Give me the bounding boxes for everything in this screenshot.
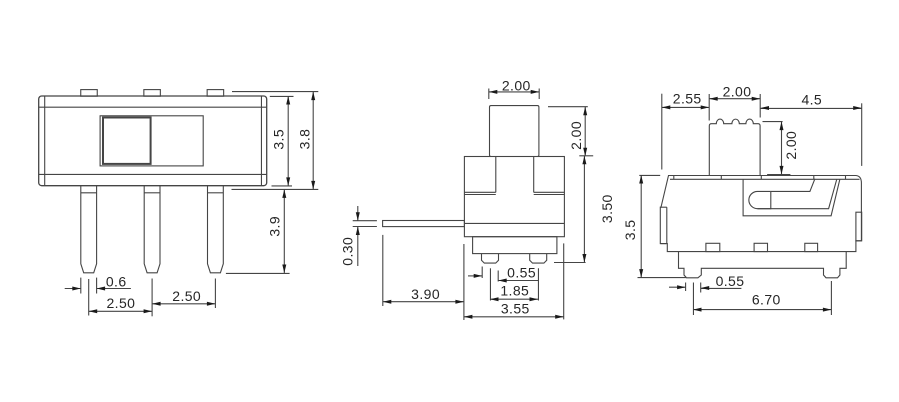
- dim 2.00 top line: [489, 91, 539, 93]
- dim 3.50 line: [583, 156, 585, 263]
- middle view body: [464, 157, 564, 237]
- svg-text:1.85: 1.85: [500, 283, 529, 299]
- svg-text:3.50: 3.50: [599, 194, 615, 223]
- right view slot bottom edge: [758, 180, 837, 209]
- dim 3.8 extension lines: [232, 91, 318, 93]
- dim 0.30 extension lines: [353, 220, 377, 222]
- left view slider window: [100, 116, 203, 166]
- svg-text:3.8: 3.8: [296, 129, 312, 150]
- dim 2.00 top extension ticks: [488, 89, 490, 100]
- svg-text:0.6: 0.6: [106, 274, 127, 290]
- dim 3.55 extension line right: [563, 243, 565, 319]
- left view: switch body (front): [39, 96, 267, 186]
- dim 2.00 rv vertical line: [781, 122, 783, 175]
- middle view: actuator stem: [490, 106, 539, 157]
- dim 3.5 extension lines: [270, 95, 294, 97]
- svg-text:2.55: 2.55: [673, 90, 702, 106]
- dim 2.55 line: [662, 106, 709, 108]
- svg-text:3.55: 3.55: [501, 301, 530, 317]
- dim 3.8 line: [312, 92, 314, 190]
- dim 6.70 extension lines: [692, 283, 694, 316]
- dim 1.85 line: [490, 298, 538, 300]
- dim 3.90 line: [383, 301, 464, 303]
- dim 3.9 extension line: [226, 272, 290, 274]
- dim 2.55 extension line: [661, 94, 663, 170]
- dim 2.00 rv top line: [709, 98, 760, 100]
- dim 3.5 line: [287, 96, 289, 186]
- svg-text:3.9: 3.9: [267, 216, 283, 237]
- right view right tab: [856, 212, 862, 241]
- dim 2.00 right extension line: [548, 106, 588, 108]
- dim 2.50 right line: [152, 303, 215, 305]
- middle view base: [473, 237, 557, 254]
- dim 4.5 line: [761, 107, 862, 109]
- dim 0.55 middle extension lines: [481, 267, 483, 279]
- right view knob pill: [749, 191, 771, 208]
- dim 6.70 line: [693, 309, 831, 311]
- right view bottom terminal rects: [706, 243, 720, 251]
- dim 3.55 line: [464, 316, 564, 318]
- dim 0.55 rv arrows: [669, 286, 686, 288]
- middle view foot 1: [482, 254, 499, 264]
- dim 4.5 extension line: [861, 103, 863, 166]
- dim 0.6 extension lines: [80, 278, 82, 294]
- svg-text:0.55: 0.55: [507, 265, 536, 281]
- right view inner top line: [670, 178, 860, 180]
- right view actuator with serrations: [709, 119, 760, 175]
- svg-text:4.5: 4.5: [801, 92, 822, 108]
- svg-text:2.00: 2.00: [783, 131, 799, 160]
- right view recess outline: [743, 179, 840, 216]
- svg-text:3.5: 3.5: [622, 220, 638, 241]
- dim 3.5 rv line: [640, 175, 642, 278]
- middle view bent pin (side): [383, 221, 465, 227]
- dim 3.90 extension lines: [382, 235, 384, 306]
- dim 2.00 rv vertical extension line: [763, 121, 783, 123]
- svg-text:0.55: 0.55: [716, 273, 745, 289]
- dim 0.30 arrows: [357, 206, 359, 221]
- middle view slot bottom double lines: [464, 191, 495, 193]
- dim 2.50 right extension line: [214, 279, 216, 309]
- dim 3.50 extension ticks: [579, 155, 593, 157]
- svg-text:6.70: 6.70: [752, 291, 781, 307]
- left view inner vertical lines: [44, 96, 46, 185]
- svg-text:0.30: 0.30: [340, 237, 356, 266]
- svg-text:2.00: 2.00: [568, 121, 584, 150]
- middle view foot 2: [530, 254, 547, 264]
- right view: body outline: [660, 176, 861, 252]
- dim 0.6 arrows: [65, 288, 81, 290]
- middle view slot shoulder lines: [495, 157, 497, 193]
- dim 2.50 left extension lines: [88, 279, 90, 316]
- svg-text:3.5: 3.5: [271, 129, 287, 150]
- dim 1.85 extension lines: [489, 268, 491, 300]
- dim 0.55 middle arrows: [468, 275, 482, 277]
- left view top tabs: [81, 90, 98, 97]
- left view pins: [81, 186, 97, 273]
- left view inner horizontal lines: [39, 106, 266, 108]
- dim 3.5 rv extension lines: [639, 174, 660, 176]
- svg-text:2.00: 2.00: [723, 84, 752, 100]
- right view top edge ticks: [673, 176, 675, 180]
- right view base with feet: [679, 252, 847, 278]
- dim 2.00 rv top extension lines: [708, 94, 710, 121]
- svg-text:2.00: 2.00: [502, 77, 531, 93]
- dim 0.55 rv extension lines: [685, 283, 687, 292]
- dim 2.50 left line: [89, 310, 152, 312]
- svg-text:3.90: 3.90: [411, 286, 440, 302]
- dim 3.9 line: [283, 189, 285, 273]
- dim 2.00 right line: [584, 107, 586, 157]
- right view slot top edge: [771, 179, 815, 192]
- svg-text:2.50: 2.50: [106, 295, 135, 311]
- left view slider knob: [103, 118, 151, 164]
- right view left tab inner edge: [666, 207, 668, 243]
- middle view mid seam line: [464, 222, 564, 224]
- svg-text:2.50: 2.50: [172, 288, 201, 304]
